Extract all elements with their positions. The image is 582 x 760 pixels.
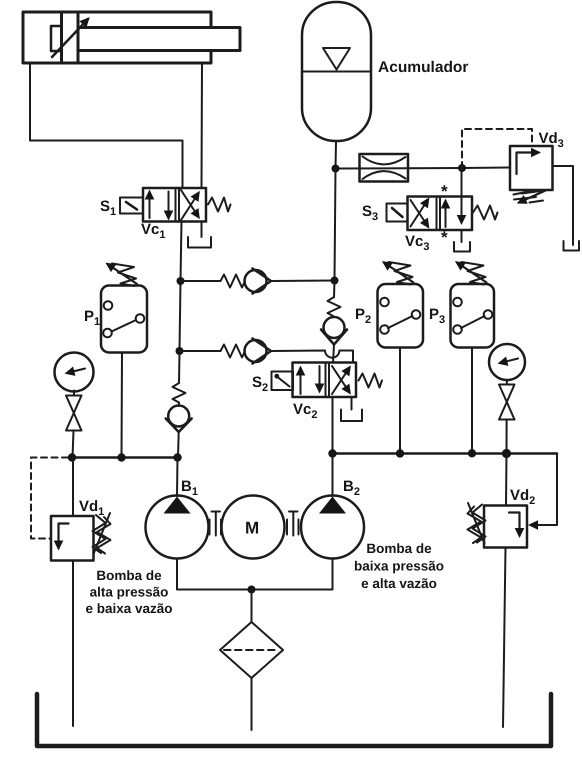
Vd1 internal arrow xyxy=(59,524,69,549)
svg-text:e baixa vazão: e baixa vazão xyxy=(85,601,172,616)
svg-text:*: * xyxy=(441,182,448,201)
check valve branch1 xyxy=(245,270,267,292)
svg-text:P1: P1 xyxy=(84,308,100,328)
cylinder cushion block xyxy=(51,26,62,51)
Vc3 down line with arrow xyxy=(461,197,463,223)
Vc3 up arrow xyxy=(445,201,447,227)
drain Vd3 xyxy=(564,241,580,251)
solenoid S2 xyxy=(272,372,294,391)
shutoff valve left xyxy=(66,396,82,414)
P1 adjustable spring xyxy=(112,264,136,287)
spring branch2 xyxy=(221,345,246,358)
Vc2 crossed arrows xyxy=(332,368,350,395)
variable arrow through piston xyxy=(52,19,88,57)
wire Vd2 to tank xyxy=(503,548,506,728)
wire branch2 xyxy=(180,350,221,352)
Vd2 spring xyxy=(473,505,486,543)
spring on left line xyxy=(173,383,186,403)
PRESSURE SWITCH P1 xyxy=(101,286,147,353)
wire cylinder rod-side to valve Vc1 xyxy=(201,63,204,188)
spring branch1 xyxy=(221,275,246,288)
relief valve Vd1 body xyxy=(51,516,94,561)
motor M xyxy=(222,496,285,559)
filter xyxy=(220,622,283,678)
svg-text:P2: P2 xyxy=(355,306,371,326)
spring on right line xyxy=(328,297,341,317)
Vc2 up arrow xyxy=(300,368,302,394)
valve Vc2 body xyxy=(293,363,357,398)
PRESSURE SWITCH P2 xyxy=(378,284,424,348)
wire Vc3 to drain xyxy=(461,230,463,242)
pump B1 xyxy=(146,496,209,559)
svg-text:Vd2: Vd2 xyxy=(510,487,535,507)
svg-text:B2: B2 xyxy=(343,478,360,498)
Vd3 internal arrow xyxy=(517,153,539,175)
wire Vc2 to drain xyxy=(351,397,353,410)
wire manifold to Vd1 xyxy=(72,458,74,517)
dashed pilot to Vd1 xyxy=(31,458,68,539)
Vc2 down arrow xyxy=(319,366,321,391)
wire Vc2 to manifold xyxy=(332,397,334,454)
PRESSURE SWITCH P3 xyxy=(451,284,495,348)
wire pump suction xyxy=(177,559,333,590)
wire gauge left to manifold xyxy=(73,431,74,458)
Vc3 spring xyxy=(473,206,498,220)
wire gauge right to manifold xyxy=(506,420,508,454)
pilot line to Vd2 xyxy=(538,454,557,526)
node branch2 left xyxy=(176,347,184,355)
node pilot junction xyxy=(458,164,466,172)
accumulator gas triangle xyxy=(323,48,350,70)
gauge right xyxy=(489,344,525,380)
check valve left vertical xyxy=(178,403,180,407)
svg-text:S1: S1 xyxy=(100,198,116,218)
Vc3 crossed arrows xyxy=(411,200,429,227)
wire P1 to manifold xyxy=(121,353,124,458)
wire accumulator to main line xyxy=(335,141,338,169)
svg-text:Acumulador: Acumulador xyxy=(378,59,468,76)
valve Vc3 body xyxy=(408,197,473,231)
wire P3 to manifold xyxy=(471,348,473,454)
svg-text:baixa pressão: baixa pressão xyxy=(354,559,444,574)
Vd1 spring xyxy=(93,515,106,553)
wire Vd3 outlet to drain xyxy=(553,166,574,245)
relief valve Vd3 body xyxy=(510,146,553,190)
svg-text:P3: P3 xyxy=(429,306,445,326)
Vc1 down arrow xyxy=(168,192,170,219)
cylinder piston xyxy=(60,12,63,63)
Vc1 spring xyxy=(208,198,231,212)
wire manifold right xyxy=(333,452,558,455)
drain Vc2 xyxy=(341,410,362,422)
Vd3 adjustable spring xyxy=(514,191,532,195)
wire manifold to pump B2 xyxy=(332,454,334,497)
wire Vc1 to drain xyxy=(201,222,203,238)
accumulator shell xyxy=(302,2,371,141)
gauge left xyxy=(55,353,94,392)
wire filter to tank xyxy=(251,678,253,730)
drain Vc1 xyxy=(188,237,211,248)
svg-text:alta pressão: alta pressão xyxy=(90,585,169,600)
svg-text:Vc3: Vc3 xyxy=(405,233,429,253)
wire main line xyxy=(336,168,511,169)
Vc1 up arrow xyxy=(149,192,151,218)
piston rod xyxy=(78,28,240,51)
Vd2 internal arrow xyxy=(509,513,520,536)
valve Vc1 body xyxy=(143,188,206,222)
wire manifold to Vd2 xyxy=(505,454,508,506)
TANK xyxy=(37,694,551,746)
svg-text:e alta vazão: e alta vazão xyxy=(361,576,437,591)
wire main line to Vc3 xyxy=(461,168,463,197)
P2 adjustable spring xyxy=(389,262,413,285)
coupling M-B2 xyxy=(286,520,288,535)
wire manifold left xyxy=(72,456,178,459)
Vd3 pilot dashed line xyxy=(462,129,532,168)
check valve right vertical xyxy=(324,317,345,338)
drain Vc3 xyxy=(454,242,470,252)
svg-text:Bomba de: Bomba de xyxy=(96,568,162,583)
Vc2 spring xyxy=(359,374,383,388)
wire Vd1 to tank xyxy=(72,561,74,727)
svg-text:Vc1: Vc1 xyxy=(141,221,165,241)
svg-text:S3: S3 xyxy=(362,203,378,223)
solenoid S3 xyxy=(387,204,408,222)
coupling B1-M xyxy=(209,520,211,535)
wire main line down xyxy=(335,169,336,281)
pump B2 xyxy=(301,496,364,559)
svg-text:*: * xyxy=(441,228,448,247)
wire Vc1 to manifold xyxy=(179,222,182,384)
svg-text:Vc2: Vc2 xyxy=(293,401,317,421)
shutoff valve right xyxy=(499,385,515,403)
accumulator separator line xyxy=(302,71,371,73)
svg-text:Bomba de: Bomba de xyxy=(366,541,432,556)
wire cylinder cap-side to valve Vc1 xyxy=(30,63,183,188)
P3 adjustable spring xyxy=(462,262,486,285)
wire branch2 to Vc2 with crossover hump xyxy=(272,351,353,363)
solenoid S1 xyxy=(120,198,143,214)
flow restrictor xyxy=(360,154,409,182)
wire branch1 xyxy=(181,280,221,282)
node branch1 left xyxy=(177,277,185,285)
cylinder body xyxy=(23,12,211,63)
wire P2 to manifold xyxy=(399,348,401,454)
relief valve Vd2 body xyxy=(484,506,527,548)
node main-accumulator junction xyxy=(332,165,340,173)
wire manifold to pump B1 xyxy=(176,458,179,497)
svg-text:S2: S2 xyxy=(252,374,268,394)
Vc1 crossed arrows xyxy=(181,193,199,220)
node branch1 right xyxy=(331,277,339,285)
check valve branch2 xyxy=(245,340,267,362)
svg-text:M: M xyxy=(245,519,259,538)
